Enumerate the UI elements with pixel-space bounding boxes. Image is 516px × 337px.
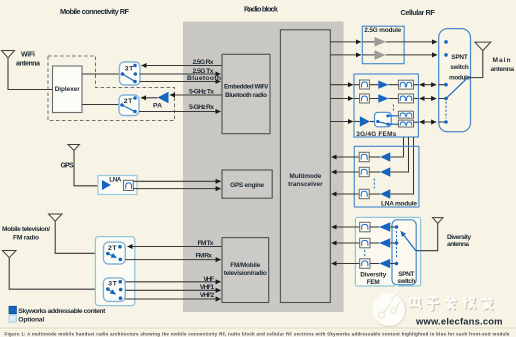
svg-text:Diplexer: Diplexer — [55, 86, 81, 93]
label Main antenna — [491, 57, 515, 73]
wire diversity row1 to transceiver — [332, 226, 360, 228]
SPNT module node stubs — [439, 85, 446, 122]
caption divider rule — [0, 327, 516, 329]
amplifier (LNA row3) — [380, 189, 390, 199]
wire WiFi antenna to diplexer — [8, 58, 53, 90]
duplexer B (FEM row3) — [398, 120, 413, 127]
wire LNA to GPS engine (lower) — [133, 188, 220, 190]
switch 3T (FM) — [103, 278, 125, 302]
wire through 2.5G module row1 — [362, 41, 404, 43]
legend: Skyworks addressable content — [9, 306, 106, 315]
diplexer — [53, 66, 83, 113]
svg-text:LNA: LNA — [109, 177, 122, 184]
wire LNA row2 to transceiver — [332, 171, 360, 173]
wire duplexer B out — [414, 121, 419, 123]
wire LNA row3 to transceiver — [332, 193, 360, 195]
svg-text:2T: 2T — [108, 245, 117, 252]
wire PA out to 2T — [141, 97, 158, 99]
svg-text:Diversity: Diversity — [360, 272, 386, 279]
wire FM Rx — [125, 259, 220, 261]
wire diversity row2 to transceiver — [332, 242, 360, 244]
svg-text:switch: switch — [450, 64, 469, 71]
svg-text:VHF2: VHF2 — [200, 292, 215, 299]
wire GPS antenna to LNA — [74, 151, 103, 186]
amplifier (LNA row2) — [380, 167, 390, 177]
2.5G module — [362, 26, 404, 64]
wire 2.5G Rx — [142, 65, 223, 67]
bidirectional wire FEM-SPNT row1 — [420, 84, 437, 86]
mobile TV antenna 1 — [49, 214, 63, 221]
filter (LNA row2) — [359, 167, 369, 176]
label WiFi antenna — [16, 52, 40, 68]
svg-text:3G/4G FEMs: 3G/4G FEMs — [356, 131, 396, 138]
FEM to LNA vertical feed 3 — [390, 137, 413, 194]
svg-text:VHF1: VHF1 — [200, 284, 215, 291]
amplifier PA — [153, 92, 169, 110]
svg-text:5-GHz Tx: 5-GHz Tx — [189, 88, 214, 95]
watermark logo circle — [372, 293, 405, 326]
switch 2T (FM) — [104, 242, 126, 264]
Multimode transceiver — [280, 30, 330, 303]
filter (diversity row2) — [360, 238, 370, 248]
wire FM Tx — [128, 246, 223, 248]
svg-text:3T: 3T — [125, 66, 134, 73]
svg-text:5-GHz Rx: 5-GHz Rx — [189, 104, 214, 111]
wire Bluetooth — [140, 81, 221, 83]
FEM row1 wires — [354, 84, 418, 86]
dashed repetition mark (diversity filters) — [364, 250, 366, 258]
amplifier (2.5G PA lower) — [375, 50, 386, 60]
wire amp to switch node (diversity row2) — [390, 242, 396, 244]
svg-text:FEM: FEM — [367, 279, 380, 286]
svg-text:SPNT: SPNT — [398, 271, 414, 278]
wire transceiver to FEM row1 — [330, 84, 353, 86]
filter (LNA row3) — [359, 189, 369, 198]
LNA block (GPS) — [98, 176, 137, 195]
amplifier (diversity row3) — [379, 259, 390, 269]
svg-text:Bluetooth radio: Bluetooth radio — [225, 92, 267, 99]
svg-text:television/radio: television/radio — [224, 270, 267, 277]
svg-text:Optional: Optional — [18, 317, 44, 324]
svg-text:Cellular RF: Cellular RF — [400, 8, 435, 17]
duplexer (FEM row1) — [398, 80, 413, 89]
SPNT module dashed throw — [445, 102, 447, 119]
svg-text:Radio block: Radio block — [244, 5, 279, 14]
amplifier (diversity row1) — [379, 222, 390, 232]
wire diplexer to 3T — [82, 73, 120, 75]
svg-text:PA: PA — [153, 103, 162, 110]
label Mobile television / FM radio — [2, 226, 50, 241]
amplifier (2.5G PA upper) — [375, 37, 386, 47]
wire filter to amp (diversity row1) — [370, 226, 379, 228]
wire TV antenna 2 to FM 3T — [9, 258, 106, 290]
svg-text:FM Rx: FM Rx — [196, 252, 213, 259]
GPS engine — [222, 170, 272, 198]
filter (FEM row1) — [360, 80, 370, 89]
FEM to LNA vertical feed 1 — [390, 137, 403, 157]
wire amp to band switch — [370, 121, 375, 123]
wire LNA to GPS engine (upper) — [133, 180, 220, 182]
wire amp to switch node (diversity row1) — [390, 226, 396, 228]
wire filter to amp (LNA row3) — [369, 193, 380, 195]
diversity switch nodes and arm — [395, 225, 416, 265]
LNA module — [354, 146, 419, 207]
radio block gray background — [183, 22, 344, 313]
wire main antenna to SPNT arm — [468, 51, 483, 78]
svg-text:SPNT: SPNT — [451, 54, 468, 61]
wire switch to duplexer B — [388, 123, 398, 125]
dashed repetition mark (LNA module) — [373, 179, 375, 189]
svg-text:Main: Main — [493, 57, 511, 64]
bidirectional wire FEM-SPNT row3 — [420, 121, 437, 123]
diversity antenna — [433, 218, 444, 224]
wire transceiver to FEM row2 — [330, 98, 353, 100]
filter (FEM row2) — [360, 94, 370, 103]
filter (LNA row1) — [359, 152, 369, 161]
GPS antenna — [68, 145, 80, 151]
Diversity FEM outer box — [355, 217, 420, 286]
label SPNT switch (diversity) — [397, 271, 415, 285]
switch 2T (WiFi) — [119, 95, 139, 116]
wire transceiver to 2.5G module row2 — [330, 54, 361, 56]
amplifier (FEM row3) — [360, 116, 370, 126]
svg-text:antenna: antenna — [491, 66, 515, 73]
svg-text:2T: 2T — [124, 98, 133, 105]
svg-text:Embedded WiFi/: Embedded WiFi/ — [224, 84, 268, 91]
svg-text:switch: switch — [397, 278, 415, 285]
svg-text:FM Tx: FM Tx — [198, 240, 214, 247]
wire switch to duplexer A — [388, 115, 398, 117]
wire 5-GHz Tx into PA — [170, 94, 222, 96]
FM/Mobile television/radio — [222, 238, 269, 303]
optional dashed region outline — [48, 56, 175, 121]
wire 2.5G module to SPNT row1 — [404, 41, 437, 43]
svg-text:antenna: antenna — [447, 241, 469, 248]
Embedded WiFi/Bluetooth radio — [222, 54, 270, 133]
svg-text:2.5G Tx: 2.5G Tx — [193, 68, 214, 75]
svg-text:LNA module: LNA module — [381, 200, 417, 207]
bidirectional wire FEM-SPNT row2 — [420, 98, 437, 100]
svg-text:Bluetooth: Bluetooth — [187, 75, 221, 82]
label Diversity FEM — [360, 272, 386, 286]
wire LNA row1 to transceiver — [332, 156, 360, 158]
duplexer (FEM row2) — [398, 94, 413, 103]
wire filter to amp (LNA row1) — [369, 156, 380, 158]
svg-text:WiFi: WiFi — [21, 52, 35, 59]
filter (diversity row3) — [360, 259, 370, 269]
wire 2.5G module to SPNT row2 — [404, 54, 437, 56]
legend: Optional — [9, 315, 44, 324]
wire filter to amp (diversity row2) — [370, 242, 379, 244]
SPNT module nodes — [444, 40, 448, 124]
mobile TV antenna 2 — [3, 251, 17, 258]
wire VHF — [125, 281, 220, 283]
WiFi antenna — [2, 51, 15, 59]
FEM row2 wires — [354, 98, 418, 100]
FM front-end outer box — [95, 237, 134, 306]
wire VHF2 — [125, 298, 220, 300]
wire transceiver to FEM row3 — [330, 121, 353, 123]
wire through 2.5G module row2 — [362, 54, 404, 56]
watermark logo trace tail — [391, 285, 397, 298]
svg-text:antenna: antenna — [16, 61, 40, 68]
svg-text:2.5G module: 2.5G module — [364, 27, 401, 34]
svg-text:FM/Mobile: FM/Mobile — [230, 262, 260, 269]
wire transceiver to 2.5G module row1 — [330, 41, 361, 43]
amplifier (FEM row1) — [378, 81, 388, 89]
label Diversity antenna — [447, 234, 471, 248]
svg-text:transceiver: transceiver — [288, 181, 323, 188]
svg-text:Figure 1: A multimode mobile h: Figure 1: A multimode mobile handset rad… — [5, 332, 511, 337]
wire amp to switch node (diversity row3) — [390, 263, 396, 265]
3G/4G FEMs module — [354, 74, 418, 138]
SPNT switch box (diversity) — [392, 220, 416, 285]
dashed repetition mark (FEM) — [392, 105, 394, 112]
amplifier (FEM row2) — [378, 94, 388, 102]
svg-text:GPS: GPS — [61, 163, 74, 170]
main antenna — [475, 42, 491, 51]
FEM to LNA vertical feed 2 — [390, 137, 408, 172]
svg-text:Skyworks addressable content: Skyworks addressable content — [18, 308, 106, 315]
SPNT switch module — [439, 29, 471, 132]
wire diplexer to 2T — [82, 104, 119, 106]
svg-text:GPS engine: GPS engine — [230, 182, 264, 189]
wire diversity row3 to transceiver — [332, 263, 360, 265]
svg-text:3T: 3T — [108, 281, 117, 288]
svg-text:2.5G Rx: 2.5G Rx — [193, 59, 214, 66]
svg-text:Multimode: Multimode — [289, 173, 321, 180]
svg-text:FM radio: FM radio — [13, 235, 39, 242]
duplexer A (FEM row3) — [398, 111, 413, 118]
svg-text:VHF: VHF — [203, 276, 214, 283]
switch 3T (WiFi) — [120, 62, 141, 85]
wire filter to amp (LNA row2) — [369, 171, 380, 173]
FEM row3 input wire — [354, 121, 360, 123]
SPNT module arm — [446, 78, 468, 99]
wire TV antenna 1 to FM 2T — [55, 221, 106, 253]
svg-text:www.elecfans.com: www.elecfans.com — [415, 316, 503, 327]
band switch (FEM row3) — [375, 112, 392, 127]
filter (diversity row1) — [360, 222, 370, 232]
wire 5-GHz Rx — [139, 111, 221, 113]
svg-text:Mobile television/: Mobile television/ — [2, 226, 50, 233]
wire 2.5G Tx — [140, 73, 221, 75]
amplifier (LNA row1) — [380, 152, 390, 162]
wire VHF1 — [125, 289, 220, 291]
svg-text:Mobile connectivity RF: Mobile connectivity RF — [60, 7, 129, 16]
wire filter to amp (diversity row3) — [370, 263, 379, 265]
wire diversity antenna to switch — [416, 223, 437, 250]
amplifier (diversity row2) — [379, 238, 390, 248]
svg-text:Diversity: Diversity — [447, 234, 471, 241]
watermark text (stylized glyphs) — [410, 296, 494, 311]
